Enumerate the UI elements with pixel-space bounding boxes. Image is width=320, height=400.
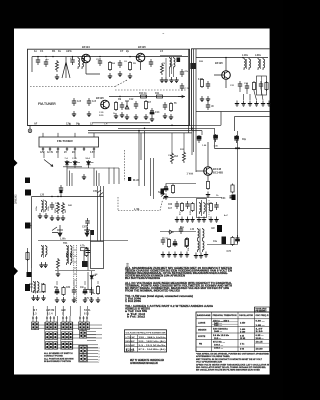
ground row xyxy=(175,217,179,223)
svg-text:*VAN AFREG. EN DE AFREGEL PUNT: *VAN AFREG. EN DE AFREGEL PUNTEN BIJ ONT… xyxy=(196,353,269,356)
svg-text:12V TA: 12V TA xyxy=(85,297,93,300)
ecap C71 xyxy=(173,239,177,247)
svg-text:R10 1k: R10 1k xyxy=(139,92,147,95)
capacitor C82 xyxy=(72,287,76,295)
trimmer dashed link xyxy=(208,200,210,220)
svg-text:FM: FM xyxy=(199,343,202,345)
AF transformer TR2 xyxy=(198,228,200,240)
header separator xyxy=(125,334,167,336)
svg-text:4.5V: 4.5V xyxy=(90,151,95,154)
table text xyxy=(126,332,167,352)
resistor R61 xyxy=(191,202,194,212)
registration arrow left lower xyxy=(14,267,18,276)
wire: left drop xyxy=(31,57,33,72)
resistor R33 xyxy=(206,180,209,190)
svg-text:1.95 —: 1.95 — xyxy=(256,325,266,327)
resistor R83 xyxy=(42,283,45,293)
ground xyxy=(144,114,148,120)
junction dots on bus xyxy=(138,130,140,132)
labels mid row xyxy=(118,98,152,104)
note under centre table xyxy=(130,359,164,365)
driver transformer TR1 xyxy=(67,245,69,257)
wire rail xyxy=(163,197,222,199)
wire xyxy=(87,272,89,290)
wire: bias xyxy=(166,183,196,186)
svg-text:BAND/GAME: BAND/GAME xyxy=(197,314,211,317)
ground xyxy=(128,73,132,79)
resistor R23 xyxy=(265,81,268,91)
junction dots on rail xyxy=(51,196,52,197)
svg-text:4.7k: 4.7k xyxy=(80,245,85,248)
wire xyxy=(30,268,46,292)
wire rail3 xyxy=(207,244,238,246)
svg-text:2 450: 2 450 xyxy=(240,322,246,325)
wire: AM top rail xyxy=(196,57,268,59)
svg-text:KG/SW: KG/SW xyxy=(126,345,136,347)
table text xyxy=(197,307,269,350)
svg-text:OSCILLATOR: OSCILLATOR xyxy=(239,314,254,317)
svg-text:C57: C57 xyxy=(82,226,87,229)
potentiometer inside xyxy=(85,247,88,257)
pre-block component xyxy=(91,230,95,235)
svg-text:L40: L40 xyxy=(190,228,195,231)
svg-text:OSC FREQ R: OSC FREQ R xyxy=(256,315,269,317)
coil L2 xyxy=(82,57,84,69)
resistor R30 zigzag xyxy=(171,152,174,164)
svg-text:MG/MW: MG/MW xyxy=(126,341,136,343)
resistor chain right xyxy=(231,236,234,246)
value labels top row xyxy=(34,45,164,53)
connector J4 xyxy=(27,272,32,277)
labels xyxy=(215,53,261,65)
svg-text:C.45: C.45 xyxy=(72,157,77,160)
capacitor C65 xyxy=(179,226,183,234)
ground xyxy=(160,77,164,83)
resistor R34 xyxy=(171,184,174,194)
capacitor C13 xyxy=(134,101,138,109)
transistor T2 xyxy=(136,53,145,62)
svg-text:1N: 1N xyxy=(95,274,98,276)
dashed control link xyxy=(124,150,126,181)
capacitor C5 xyxy=(98,58,102,66)
ground xyxy=(134,114,138,120)
transistor T7 xyxy=(84,225,90,237)
svg-text:b Fol: 10±2: b Fol: 10±2 xyxy=(127,316,146,319)
IF transformer left xyxy=(42,245,44,257)
svg-text:FREHONL TREBUTION: FREHONL TREBUTION xyxy=(213,315,238,317)
ground xyxy=(43,262,47,268)
resistor R10 box xyxy=(141,95,147,98)
output transformer TR3 xyxy=(34,281,36,293)
diode D20 xyxy=(168,230,174,234)
page xyxy=(14,29,270,375)
svg-text:PM GEBRKT: PM GEBRKT xyxy=(256,311,268,313)
switch S4b xyxy=(80,331,83,339)
svg-text:10.15: 10.15 xyxy=(256,341,264,343)
capacitor C41 xyxy=(59,185,63,193)
transistor T4 xyxy=(222,71,231,80)
svg-text:1 400: 1 400 xyxy=(240,328,246,331)
svg-text:C50: C50 xyxy=(93,190,98,193)
labels xyxy=(29,283,85,289)
svg-text:1n: 1n xyxy=(34,49,37,53)
ground row xyxy=(235,101,239,107)
svg-text:L.Wx: L.Wx xyxy=(60,238,66,241)
wire bus 2 xyxy=(118,127,215,129)
node dot xyxy=(129,56,130,57)
ground xyxy=(50,215,54,221)
coil L30 xyxy=(258,58,260,70)
svg-text:L20: L20 xyxy=(40,194,45,197)
resistor R12 xyxy=(144,100,147,110)
wire bus 4 xyxy=(88,132,192,134)
svg-text:BF195: BF195 xyxy=(215,61,223,65)
resistor R20 xyxy=(200,78,203,88)
svg-text:ALL SCHEMES OF SWITCH: ALL SCHEMES OF SWITCH xyxy=(44,352,73,355)
ecap C83 xyxy=(83,287,87,295)
svg-text:2k2: 2k2 xyxy=(174,155,179,158)
wire drop long xyxy=(192,128,202,155)
node dot xyxy=(72,56,73,57)
ecap C73 right xyxy=(236,235,240,243)
svg-text:12.4V: 12.4V xyxy=(47,151,53,154)
ground xyxy=(82,174,86,180)
wire drop from bus xyxy=(140,133,142,160)
wire: base xyxy=(196,170,204,172)
capacitor C30 xyxy=(234,135,238,143)
switch contact S1 xyxy=(97,190,103,196)
ground xyxy=(120,112,124,118)
component labels xyxy=(168,204,211,210)
switch S3c xyxy=(62,342,65,350)
wire triple drop xyxy=(91,186,104,241)
ground xyxy=(55,74,59,80)
svg-text:25L: 25L xyxy=(188,247,190,251)
wire stub xyxy=(86,289,92,291)
resistor R40 xyxy=(57,202,60,214)
pin stub drops xyxy=(44,151,94,158)
page speck xyxy=(163,32,165,35)
wire left feeds xyxy=(194,133,196,172)
transistor T6 xyxy=(57,225,63,237)
svg-text:C12: C12 xyxy=(129,98,134,101)
ground xyxy=(164,77,168,83)
resistor R84 xyxy=(62,286,65,296)
capacitor C23 xyxy=(259,81,263,89)
ecap C14 xyxy=(150,108,154,116)
coil L5 xyxy=(170,57,172,69)
resistor R31 zigzag xyxy=(183,151,186,163)
tower feed stubs up xyxy=(33,306,87,316)
capacitor C40 xyxy=(50,202,54,210)
resistor R62 xyxy=(209,202,212,212)
blob C17 xyxy=(177,58,181,63)
svg-text:C64: C64 xyxy=(221,197,226,200)
row lines xyxy=(196,326,270,347)
wire T4 base xyxy=(214,58,226,88)
core xyxy=(246,59,248,69)
capacitor C84 xyxy=(89,287,93,295)
svg-text:LANGE: LANGE xyxy=(198,321,206,324)
capacitor C8 xyxy=(149,59,153,67)
svg-text:1n5: 1n5 xyxy=(77,100,82,103)
wire stubs up xyxy=(57,281,98,285)
capacitor C16 xyxy=(120,102,124,110)
svg-text:2RB262: 2RB262 xyxy=(14,194,18,204)
ground bar xyxy=(235,148,240,150)
transformer can bottom line xyxy=(92,122,150,124)
svg-text:BC148: BC148 xyxy=(213,167,222,171)
svg-text:AFWIJKINGEN MOGELIJK: AFWIJKINGEN MOGELIJK xyxy=(130,362,158,365)
capacitor C10 xyxy=(72,98,76,106)
capacitor C60 xyxy=(175,201,179,209)
node dot xyxy=(45,56,46,57)
capacitor C20 xyxy=(206,81,210,89)
node dot xyxy=(37,56,38,57)
ground xyxy=(72,297,76,303)
svg-text:4k7: 4k7 xyxy=(147,101,152,104)
capacitor C21 xyxy=(238,81,242,89)
svg-text:BIJ BATTERIJVOEDING: BIJ BATTERIJVOEDING xyxy=(125,277,160,280)
ground xyxy=(39,262,43,268)
ground xyxy=(118,71,122,77)
ground xyxy=(55,297,59,303)
ecap C33 xyxy=(164,184,168,192)
note text under switches xyxy=(44,352,74,363)
dark component C58 xyxy=(82,261,88,267)
svg-text:15.5 —: 15.5 — xyxy=(214,338,222,340)
wires out of CN1 xyxy=(87,348,98,363)
ground xyxy=(114,113,118,119)
svg-text:FROM THE NOMINAL INDICATED VAL: FROM THE NOMINAL INDICATED VALUES xyxy=(125,290,180,293)
svg-text:L20b: L20b xyxy=(48,206,50,211)
svg-text:540 520k/kc: 540 520k/kc xyxy=(213,327,229,330)
wire: aerial rail xyxy=(32,196,104,198)
svg-text:C73: C73 xyxy=(227,250,232,253)
svg-text:FM: FM xyxy=(126,349,135,351)
svg-text:AF: AF xyxy=(34,123,38,126)
svg-text:2.1 4: 2.1 4 xyxy=(47,313,53,316)
wire from J2 xyxy=(31,225,32,227)
svg-text:2V: 2V xyxy=(64,152,67,154)
svg-text:0.60 —: 0.60 — xyxy=(256,320,266,322)
svg-text:87.5 - 104 MHz (AL): 87.5 - 104 MHz (AL) xyxy=(139,348,166,351)
mixer wire xyxy=(160,55,182,57)
svg-text:0.2V: 0.2V xyxy=(198,79,203,81)
node dot xyxy=(99,56,100,57)
svg-text:EN OSCILLATOR HOLTE EN FILTERS: EN OSCILLATOR HOLTE EN FILTERS BEHOREN Z… xyxy=(196,369,260,372)
resistor R5 xyxy=(128,61,131,71)
capacitor C80 xyxy=(86,248,90,256)
wire: long right vertical xyxy=(237,131,239,245)
svg-text:100.0 —: 100.0 — xyxy=(214,344,224,346)
nested corner line xyxy=(235,116,270,118)
ground xyxy=(72,111,76,117)
antenna xyxy=(62,57,70,78)
svg-text:BF194: BF194 xyxy=(82,45,90,49)
dashed link path xyxy=(118,197,163,211)
table frame xyxy=(125,330,167,352)
resistor R4 xyxy=(108,61,111,71)
svg-text:FM-TUNER: FM-TUNER xyxy=(57,139,73,143)
resistor R22 xyxy=(252,81,255,91)
transistor T1 xyxy=(82,54,91,63)
blob xyxy=(60,191,63,194)
capacitor C42 xyxy=(85,218,89,226)
row lines xyxy=(125,339,167,347)
transistor T3 xyxy=(101,100,110,109)
ground xyxy=(125,114,129,120)
ground xyxy=(38,213,42,219)
svg-text:MET TOESTEL IN DE KONTAKT KONT: MET TOESTEL IN DE KONTAKT KONTAKTS MOET … xyxy=(196,358,263,361)
svg-text:MIDDEN: MIDDEN xyxy=(198,329,207,331)
svg-text:KORTE: KORTE xyxy=(198,336,206,338)
capacitor C61 xyxy=(185,201,189,209)
capacitor C18 xyxy=(180,69,184,77)
svg-text:CONTACT FOUND: CONTACT FOUND xyxy=(44,355,63,358)
coil L10 xyxy=(244,58,246,70)
wire verticals into grounds xyxy=(240,89,263,100)
coil L11 xyxy=(249,58,251,70)
AM converter box border xyxy=(192,49,270,130)
svg-text:0V: 0V xyxy=(56,152,59,154)
svg-text:30p: 30p xyxy=(242,138,247,141)
wire left column xyxy=(27,248,29,272)
ground xyxy=(56,215,60,221)
svg-text:BF195: BF195 xyxy=(138,45,146,49)
wire end labels xyxy=(99,348,101,365)
IF transformer IFT1 xyxy=(197,199,207,218)
svg-text:R1: R1 xyxy=(52,49,56,53)
wire bus 3 xyxy=(88,130,202,132)
resistor R11 box xyxy=(157,95,163,98)
dashed gang line xyxy=(30,80,187,91)
svg-text:C82: C82 xyxy=(66,287,71,289)
aerial connector J1b xyxy=(25,190,31,196)
stub wires above box xyxy=(43,133,94,137)
resistor R41 xyxy=(62,202,65,214)
pin labels on bus xyxy=(34,123,108,126)
capacitor C6 xyxy=(118,60,122,68)
switch frame wires xyxy=(63,165,89,168)
volume control block xyxy=(91,241,104,268)
svg-text:L10x: L10x xyxy=(242,53,248,57)
svg-text:10n: 10n xyxy=(80,287,85,289)
resistor R2 zigzag xyxy=(56,60,59,72)
resistor R13 xyxy=(169,102,172,112)
svg-text:FM-TUNER: FM-TUNER xyxy=(38,102,56,106)
svg-text:AM: AM xyxy=(211,227,215,230)
blob xyxy=(234,136,239,139)
switch labels row xyxy=(33,309,91,316)
svg-text:15.95 —: 15.95 — xyxy=(256,338,265,340)
diode D30 xyxy=(90,271,94,295)
svg-text:AFREG VOLTS GEVEN OVER TOEGANK: AFREG VOLTS GEVEN OVER TOEGANKELIJKE 1.2… xyxy=(196,363,270,366)
diode D11 xyxy=(73,160,80,165)
svg-text:C1: C1 xyxy=(40,49,44,53)
transistor T5 xyxy=(204,167,213,176)
wire: right hline xyxy=(215,148,270,150)
svg-text:1n5: 1n5 xyxy=(92,100,97,103)
wire drop xyxy=(214,128,216,148)
input blob xyxy=(161,189,165,195)
svg-text:520 - 1622 kHz (AL): 520 - 1622 kHz (AL) xyxy=(139,340,166,343)
resistor R85 xyxy=(26,251,29,261)
capacitor C1 xyxy=(36,57,40,65)
capacitor C70 xyxy=(161,237,165,245)
resistor R14 xyxy=(114,101,117,111)
svg-text:ALL POSITION ARE SHOWN: ALL POSITION ARE SHOWN xyxy=(44,357,74,360)
pin labels xyxy=(40,151,95,154)
wire bus 1 xyxy=(28,124,222,126)
capacitor C11 xyxy=(87,98,91,106)
long feed wires down xyxy=(139,131,145,187)
switch S3a xyxy=(62,322,65,330)
component C19 xyxy=(180,83,184,91)
svg-text:1 Rd 20%: 1 Rd 20% xyxy=(125,300,142,303)
svg-text:2 100: 2 100 xyxy=(240,332,246,334)
coupling blob right xyxy=(222,237,227,245)
svg-text:87.5 Mc —: 87.5 Mc — xyxy=(213,341,226,343)
blob xyxy=(197,136,202,139)
ground xyxy=(164,194,168,200)
earth circle xyxy=(28,129,32,133)
ground xyxy=(163,113,167,119)
svg-text:A2%: A2% xyxy=(66,49,72,53)
aerial connector J1 xyxy=(25,178,30,184)
svg-text:5.9 - 15.5 M Hz/Sx: 5.9 - 15.5 M Hz/Sx xyxy=(139,345,167,347)
svg-text:R11: R11 xyxy=(155,92,160,95)
selector arrow xyxy=(44,160,53,167)
knob mark xyxy=(128,177,131,181)
column line xyxy=(131,335,138,352)
resistor on right chain xyxy=(231,184,234,194)
svg-text:GOLFLENGTE/FREQ.TYPE NUMMER.SE: GOLFLENGTE/FREQ.TYPE NUMMER.SER xyxy=(126,332,166,334)
wire: second rail xyxy=(109,96,185,98)
ground xyxy=(44,213,48,219)
ferrite coil L20 xyxy=(42,200,44,212)
svg-text:TR1: TR1 xyxy=(63,242,68,245)
wire rail2 xyxy=(160,231,196,233)
svg-text:C14: C14 xyxy=(155,111,160,114)
switch S2b xyxy=(46,332,49,340)
svg-text:IN BACKWARD POSITION: IN BACKWARD POSITION xyxy=(44,360,71,363)
svg-text:VOLT AFWIJKINGEN ZIJN: VOLT AFWIJKINGEN ZIJN xyxy=(196,360,222,363)
node dot xyxy=(52,56,53,57)
blob xyxy=(213,135,218,138)
wire: collector xyxy=(207,142,209,167)
svg-text:M-LD: M-LD xyxy=(133,179,139,182)
capacitor C63 xyxy=(214,202,218,210)
switch S2c xyxy=(46,342,49,350)
ground xyxy=(200,96,204,102)
note under right table xyxy=(196,353,270,372)
wire rail top xyxy=(38,240,128,242)
resistor R7 zigzag xyxy=(161,63,164,75)
svg-text:1.3: 1.3 xyxy=(33,313,37,316)
wire: top rail xyxy=(32,56,188,58)
resistor R65 xyxy=(185,237,188,247)
dial-cord dashed ladder xyxy=(74,245,77,303)
AM box bottom edge xyxy=(196,111,270,113)
svg-text:BC148B: BC148B xyxy=(213,171,223,175)
core xyxy=(171,57,173,74)
wire legs xyxy=(166,58,174,77)
resistor R86 xyxy=(96,285,99,295)
ground xyxy=(89,297,93,303)
svg-text:5.9 Mc 15.3 Mc: 5.9 Mc 15.3 Mc xyxy=(213,335,230,337)
ground xyxy=(87,111,91,117)
